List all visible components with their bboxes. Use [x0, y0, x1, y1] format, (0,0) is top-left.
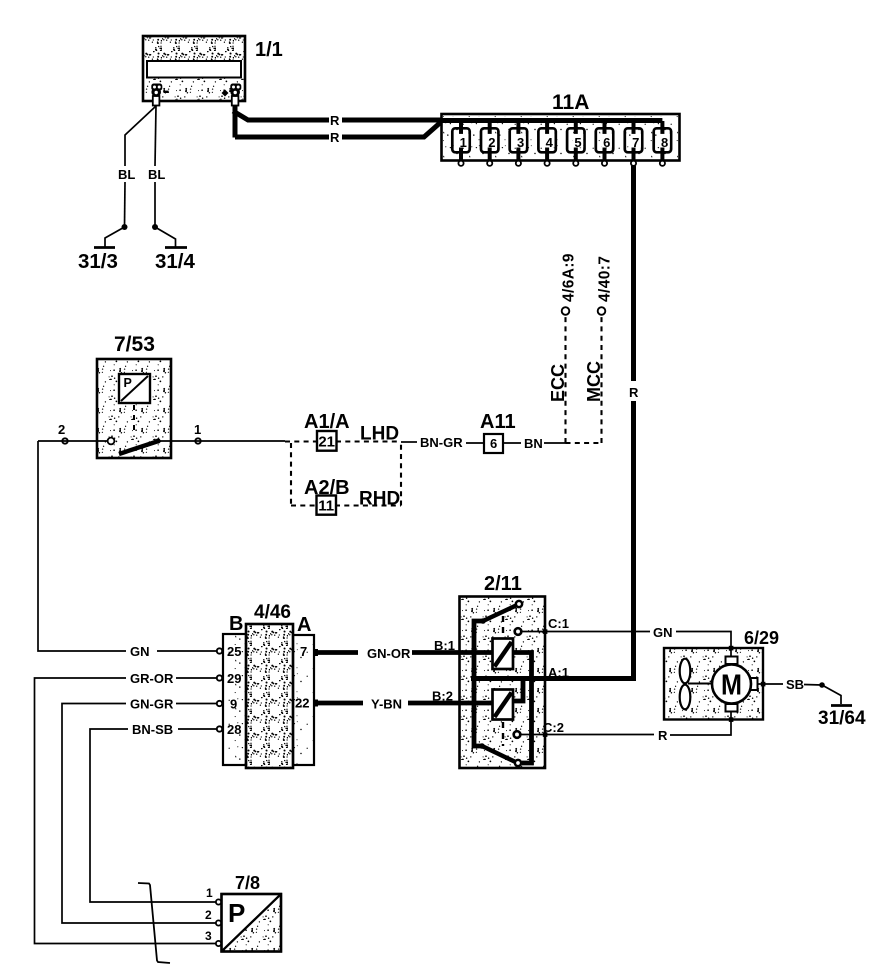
pin 2 of 7/53 [58, 422, 68, 444]
svg-text:22: 22 [295, 696, 309, 711]
terminal C:1 [515, 616, 569, 635]
wire GN-OR 4/46 A7 to relay B:1 [315, 638, 493, 661]
svg-text:31/3: 31/3 [78, 250, 118, 273]
wire coil1 to bottom contact [513, 653, 532, 764]
wire Y-BN 4/46 A22 to relay B:2 [315, 689, 493, 712]
pin A7 [300, 644, 318, 659]
svg-text:B: B [229, 613, 243, 635]
wire coil2 to A:1 [513, 678, 523, 701]
wire relay internal left vertical [474, 621, 483, 746]
svg-text:28: 28 [227, 722, 241, 737]
tick R wire at motor box edge [729, 717, 734, 722]
svg-text:8: 8 [661, 135, 668, 150]
svg-text:BL: BL [118, 167, 135, 182]
svg-text:A:1: A:1 [548, 665, 569, 680]
pin B29 [217, 671, 242, 686]
ground 31/3 [78, 224, 128, 273]
svg-text:SB: SB [786, 677, 804, 692]
fuse 3 [510, 121, 527, 166]
fuse 8 [654, 121, 671, 166]
connector A2/B (RHD) dashed branch [291, 442, 401, 515]
svg-text:11A: 11A [552, 91, 589, 114]
wire BN-SB 4/46 pin28 to 7/8 pin1 [90, 722, 217, 902]
svg-text:GN-GR: GN-GR [130, 697, 174, 712]
wire BN-GR pin1 to A1/A [158, 440, 285, 442]
wire BL battery negative to ground 31/4 [148, 106, 165, 227]
svg-text:B:2: B:2 [432, 689, 453, 704]
wire GN relay C:1 to motor 6/29 [522, 625, 731, 656]
pin B9 [217, 697, 237, 712]
bus bar [442, 118, 662, 123]
fuse 5 [567, 121, 584, 166]
fuse 4 [538, 121, 555, 166]
pump unit 7/8 [222, 873, 282, 952]
wire BL battery negative to ground 31/3 [118, 106, 156, 227]
wire A:1 [471, 665, 636, 680]
pin 3 of 7/8 [205, 929, 221, 946]
relay contact arm (top) [480, 601, 522, 624]
switch 7/53 [97, 333, 171, 458]
battery 1/1 [143, 36, 245, 101]
svg-text:R: R [330, 130, 340, 145]
svg-text:2: 2 [58, 422, 65, 437]
svg-text:29: 29 [227, 671, 241, 686]
relay coil 2 [493, 690, 514, 720]
svg-text:4/6A:9: 4/6A:9 [561, 253, 578, 302]
wire GN-GR 4/46 pin9 to 7/8 pin2 [62, 697, 217, 924]
svg-text:1: 1 [206, 886, 213, 900]
wire from pin 2 [38, 440, 108, 442]
battery negative terminal [151, 84, 168, 106]
svg-text:BL: BL [148, 167, 165, 182]
svg-text:GR-OR: GR-OR [130, 671, 174, 686]
svg-text:6/29: 6/29 [744, 628, 779, 648]
svg-text:A: A [297, 614, 311, 636]
svg-text:2/11: 2/11 [484, 573, 522, 595]
wire R battery positive to fuse box (upper) [233, 105, 445, 138]
svg-text:7: 7 [632, 135, 639, 150]
svg-text:2: 2 [205, 908, 212, 922]
connector A11 pin 6 [480, 411, 516, 453]
battery positive terminal [222, 84, 242, 106]
node 4/6A:9 (ECC) [548, 253, 578, 443]
connector 4/46 [223, 602, 314, 768]
fuse 1 [452, 121, 469, 166]
terminal C:2 [514, 720, 564, 738]
svg-text:3: 3 [517, 135, 524, 150]
mechanical link dashed (top) [502, 616, 504, 636]
svg-text:7/8: 7/8 [235, 873, 260, 893]
motor 6/29 [664, 628, 779, 720]
ground 31/4 [152, 224, 195, 273]
svg-text:R: R [629, 385, 639, 400]
svg-text:4/46: 4/46 [254, 602, 291, 623]
pin 2 of 7/8 [205, 908, 221, 926]
svg-text:7: 7 [300, 644, 307, 659]
fuse 6 [596, 121, 613, 166]
pin A22 [295, 696, 318, 711]
pin 1 of 7/8 [206, 886, 221, 905]
svg-text:A2/B: A2/B [304, 477, 350, 499]
svg-text:4: 4 [546, 135, 554, 150]
relay 2/11 [460, 573, 546, 768]
pin B25 [217, 644, 242, 659]
svg-text:3: 3 [205, 929, 212, 943]
wire R fuse 7 to relay A:1 [629, 166, 639, 679]
relay contact arm (bottom) [479, 743, 521, 766]
svg-text:31/64: 31/64 [818, 708, 866, 729]
svg-text:21: 21 [318, 434, 335, 451]
svg-text:Y-BN: Y-BN [371, 697, 402, 712]
switch contact 7/53 [108, 438, 161, 454]
fuse 2 [481, 121, 498, 166]
svg-text:BN-GR: BN-GR [420, 435, 463, 450]
node 4/40:7 (MCC) [584, 256, 614, 443]
svg-text:ECC: ECC [548, 364, 568, 402]
svg-text:5: 5 [574, 135, 581, 150]
svg-text:25: 25 [227, 644, 241, 659]
mechanical link (dashed) in 7/53 [133, 405, 135, 434]
svg-text:6: 6 [603, 135, 610, 150]
svg-text:R: R [658, 728, 668, 743]
connector A1/A (LHD) [285, 411, 401, 451]
dashed wire to MCC branch [566, 442, 602, 444]
svg-text:MCC: MCC [584, 361, 604, 402]
svg-text:BN: BN [524, 436, 543, 451]
cable marker slash [138, 883, 170, 963]
svg-text:31/4: 31/4 [155, 250, 195, 273]
svg-text:A1/A: A1/A [304, 411, 350, 433]
svg-text:4/40:7: 4/40:7 [597, 256, 614, 302]
wire BN-GR A1/A to A11 [401, 435, 484, 450]
wire GR-OR 4/46 pin29 to 7/8 pin3 [35, 671, 217, 944]
svg-text:M: M [721, 670, 742, 702]
wire BN [504, 436, 566, 451]
svg-text:9: 9 [230, 697, 237, 712]
wire SB motor to ground 31/64 [758, 677, 823, 692]
pin 1 of 7/53 [194, 422, 201, 444]
svg-text:P: P [124, 376, 132, 390]
svg-text:A11: A11 [480, 411, 516, 433]
svg-text:11: 11 [318, 498, 334, 515]
relay coil 1 [493, 639, 514, 670]
svg-text:C:1: C:1 [548, 616, 569, 631]
svg-text:1: 1 [460, 135, 467, 150]
ground 31/64 [818, 682, 866, 729]
svg-text:GN: GN [130, 644, 150, 659]
tick GN wire at motor box edge [729, 646, 734, 651]
wire R battery positive to fuse box (lower) [235, 122, 441, 145]
svg-text:6: 6 [490, 436, 497, 451]
fuse box 11A [442, 91, 680, 161]
svg-text:B:1: B:1 [434, 638, 455, 653]
P symbol in 7/53 [119, 374, 150, 403]
wire GN 7/53 pin2 to 4/46 pin25 [38, 441, 217, 659]
fan blades [680, 659, 712, 710]
svg-text:1/1: 1/1 [255, 39, 283, 61]
svg-text:GN-OR: GN-OR [367, 646, 411, 661]
svg-text:2: 2 [488, 135, 495, 150]
mechanical link dashed (bottom) [502, 722, 504, 746]
pin B28 [217, 722, 242, 737]
fuse 7 [625, 121, 642, 166]
wire R relay C:2 to motor 6/29 [521, 711, 731, 743]
svg-text:P: P [228, 898, 245, 928]
svg-text:GN: GN [653, 625, 673, 640]
motor M circle [712, 657, 758, 712]
svg-text:R: R [330, 113, 340, 128]
svg-text:BN-SB: BN-SB [132, 722, 173, 737]
svg-text:1: 1 [194, 422, 201, 437]
svg-text:7/53: 7/53 [114, 333, 155, 356]
